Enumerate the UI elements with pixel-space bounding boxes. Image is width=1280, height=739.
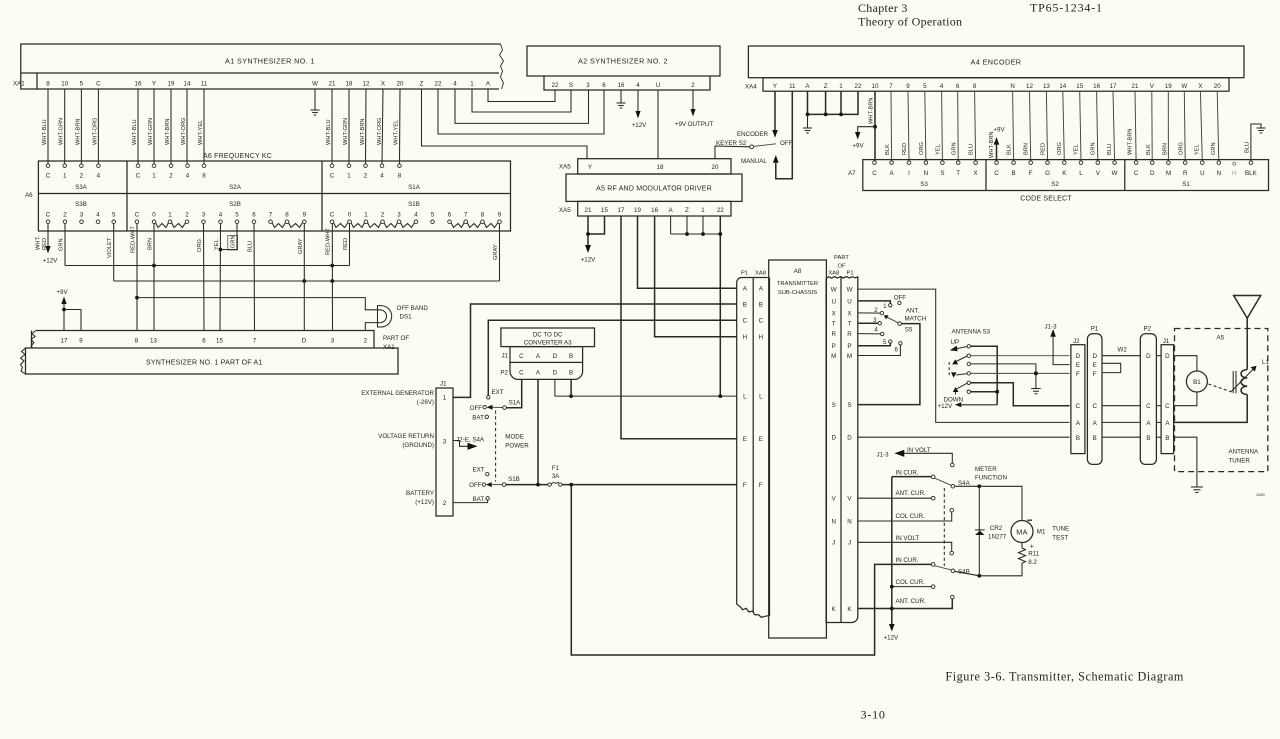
svg-text:19: 19 [168, 80, 175, 87]
wire P1-D to P2-D [1102, 355, 1140, 357]
switch S1A contacts [330, 164, 401, 168]
svg-text:ANTENNA: ANTENNA [1229, 449, 1259, 456]
svg-text:PART OF: PART OF [383, 335, 409, 342]
svg-text:1: 1 [63, 173, 67, 180]
svg-text:P2: P2 [500, 370, 508, 377]
svg-text:ENCODER: ENCODER [737, 131, 768, 138]
svg-text:COL CUR.: COL CUR. [896, 513, 926, 520]
svg-text:TUNE: TUNE [1052, 526, 1069, 533]
svg-text:BLU: BLU [1244, 142, 1250, 153]
svg-text:D: D [1146, 353, 1151, 360]
A2 pin4 +12V [637, 90, 639, 111]
svg-text:BLU: BLU [1107, 144, 1113, 155]
svg-text:D: D [1092, 353, 1097, 360]
A2 pin16 ground [617, 90, 626, 108]
wire S3 contact2 to J2-D [971, 355, 1070, 357]
svg-text:C: C [330, 212, 335, 219]
svg-text:W2: W2 [1118, 347, 1128, 354]
svg-text:GRN: GRN [231, 235, 237, 248]
svg-text:C: C [1146, 403, 1151, 410]
svg-text:E: E [1076, 362, 1080, 369]
svg-text:(+12V): (+12V) [415, 499, 434, 506]
svg-text:WHT-GRN: WHT-GRN [148, 118, 154, 145]
svg-text:K: K [847, 606, 852, 613]
svg-text:WHT-GRN: WHT-GRN [59, 118, 65, 145]
wire S3B-C WHT-RED to +12V [47, 224, 49, 247]
svg-text:GRAY: GRAY [298, 238, 304, 254]
svg-text:Z: Z [685, 207, 689, 214]
A1 synthesizer no.1 box [21, 44, 504, 89]
svg-text:OFF: OFF [470, 405, 483, 412]
svg-text:CR2: CR2 [990, 525, 1003, 532]
svg-text:S: S [847, 402, 851, 409]
antenna symbol [1234, 296, 1261, 370]
svg-text:D: D [1076, 353, 1081, 360]
svg-text:GRN: GRN [1091, 142, 1097, 155]
svg-text:S2B: S2B [229, 201, 241, 208]
svg-text:2: 2 [364, 173, 368, 180]
svg-text:F: F [759, 482, 763, 489]
A7 S3/S2 divider [985, 160, 987, 191]
svg-text:V: V [847, 496, 852, 503]
svg-text:18: 18 [657, 164, 664, 171]
A6 frequency KC box [38, 161, 510, 231]
svg-text:14: 14 [1059, 83, 1066, 90]
XA1 pin labels [46, 80, 491, 87]
svg-text:0: 0 [152, 212, 156, 219]
svg-text:C: C [330, 173, 335, 180]
svg-text:2: 2 [169, 173, 173, 180]
svg-text:B: B [759, 301, 763, 308]
svg-text:XA8: XA8 [828, 271, 839, 277]
svg-text:7: 7 [464, 212, 468, 219]
svg-text:ORG: ORG [197, 239, 203, 252]
svg-text:SYNTHESIZER NO. 1 PART OF A1: SYNTHESIZER NO. 1 PART OF A1 [146, 360, 262, 367]
svg-text:EXTERNAL GENERATOR: EXTERNAL GENERATOR [361, 390, 434, 397]
svg-text:22: 22 [717, 207, 724, 214]
svg-text:1: 1 [883, 303, 887, 310]
svg-text:3: 3 [80, 212, 84, 219]
svg-text:B: B [569, 353, 573, 360]
A5 antenna tuner dashed enclosure [1175, 329, 1268, 472]
svg-text:16: 16 [651, 207, 658, 214]
svg-text:J1: J1 [440, 381, 447, 388]
svg-text:WHT-YEL: WHT-YEL [198, 120, 204, 145]
svg-text:OFF BAND: OFF BAND [397, 305, 429, 312]
svg-text:0: 0 [348, 212, 352, 219]
svg-text:B: B [743, 301, 747, 308]
svg-text:WHT-ORG: WHT-ORG [92, 118, 98, 145]
svg-text:B: B [1012, 170, 1016, 177]
svg-text:WHT-ORG: WHT-ORG [377, 118, 383, 145]
svg-text:IN CUR.: IN CUR. [896, 557, 919, 564]
svg-text:RED: RED [902, 143, 908, 155]
svg-text:MODE: MODE [505, 434, 524, 441]
svg-text:+12V: +12V [43, 258, 58, 265]
svg-text:3A: 3A [552, 473, 560, 480]
svg-text:ORG: ORG [1178, 142, 1184, 155]
svg-text:D: D [553, 353, 558, 360]
svg-text:KEYER S2: KEYER S2 [716, 140, 747, 147]
wire S3 contact4 to J2-F [971, 372, 1070, 374]
svg-text:RED: RED [1040, 143, 1046, 155]
svg-text:7: 7 [889, 83, 893, 90]
svg-text:D: D [1150, 170, 1155, 177]
svg-text:F: F [1029, 170, 1033, 177]
svg-text:XA4: XA4 [745, 84, 757, 91]
svg-text:+9V: +9V [56, 289, 68, 296]
connector J1 (tuner) [1161, 345, 1174, 454]
svg-text:TUNER: TUNER [1229, 458, 1251, 465]
svg-text:P1: P1 [741, 271, 748, 277]
svg-text:WHT-BRN: WHT-BRN [165, 118, 171, 145]
wire XA5-19 to A8 pin A [638, 216, 737, 288]
svg-text:13: 13 [150, 338, 157, 345]
link wire A1-4 to A2-3 [455, 89, 589, 123]
wire A8-R to S5 contact 4 [858, 333, 880, 335]
svg-text:12: 12 [363, 80, 370, 87]
S2B jumper links 7-8-9 [272, 223, 303, 228]
svg-text:L: L [743, 394, 747, 401]
svg-text:B: B [1076, 435, 1080, 442]
svg-text:VIOLET: VIOLET [107, 237, 113, 258]
wire P2-A down to fuse line [537, 379, 539, 484]
svg-text:L1: L1 [1262, 359, 1269, 366]
svg-text:F: F [1076, 371, 1080, 378]
svg-text:U: U [656, 82, 660, 89]
svg-text:8.2: 8.2 [1028, 559, 1037, 566]
svg-text:+9V OUTPUT: +9V OUTPUT [675, 121, 714, 128]
svg-text:1109: 1109 [1256, 492, 1265, 497]
wire P1-A to P2-A [1102, 421, 1140, 423]
diode CR2 1N277 [978, 486, 980, 576]
svg-text:2: 2 [381, 212, 385, 219]
svg-text:T: T [956, 170, 960, 177]
wire L1 to J1-A [1174, 395, 1248, 423]
svg-text:H: H [743, 334, 747, 341]
svg-text:RED-WHT: RED-WHT [326, 228, 332, 255]
svg-text:1: 1 [364, 212, 368, 219]
svg-text:S1: S1 [1182, 181, 1190, 188]
svg-text:ANT. CUR.: ANT. CUR. [896, 598, 927, 605]
svg-text:D: D [553, 370, 558, 377]
wire color labels group2 [132, 118, 204, 145]
svg-text:B1: B1 [1193, 379, 1201, 386]
svg-text:4: 4 [414, 212, 418, 219]
svg-text:P2: P2 [1144, 326, 1152, 333]
wire A8-D to J2-B [858, 436, 1069, 438]
svg-text:DC TO DC: DC TO DC [533, 331, 563, 338]
svg-text:WHT-ORG: WHT-ORG [181, 118, 187, 145]
svg-text:19: 19 [634, 207, 641, 214]
svg-text:WHT-BRN: WHT-BRN [1128, 128, 1134, 155]
svg-text:J2-E, S4A: J2-E, S4A [456, 437, 485, 444]
svg-text:M1: M1 [1037, 529, 1046, 536]
S1B jumper links 6-7-8-9 [451, 223, 498, 228]
lamp DS1 off band [365, 306, 391, 331]
svg-text:GRN: GRN [1211, 142, 1217, 155]
svg-text:2: 2 [364, 338, 368, 345]
wire S1B-9 GRAY to bus2 [499, 224, 501, 282]
svg-text:A: A [669, 207, 674, 214]
svg-text:RED: RED [343, 238, 349, 250]
svg-text:S2: S2 [1051, 181, 1059, 188]
svg-text:5: 5 [235, 212, 239, 219]
svg-text:4: 4 [636, 82, 640, 89]
svg-text:8: 8 [135, 338, 139, 345]
svg-text:BRN: BRN [1162, 143, 1168, 155]
A7 code select box [863, 160, 1269, 191]
svg-text:20: 20 [712, 164, 719, 171]
svg-text:3: 3 [397, 212, 401, 219]
svg-text:A: A [536, 353, 541, 360]
svg-text:SUB-CHASSIS: SUB-CHASSIS [778, 290, 817, 296]
net XA4 A,Z,1,22 [808, 91, 859, 114]
wire P1-B to P2-B [1102, 436, 1140, 438]
wire XA4-10 WHT-BRN to A7 S3-C with +9V branch [874, 91, 876, 161]
svg-text:(-26V): (-26V) [417, 399, 434, 406]
svg-text:WHT-BLU: WHT-BLU [42, 119, 48, 145]
svg-text:B: B [1165, 435, 1169, 442]
svg-text:4: 4 [380, 173, 384, 180]
wire A8-U to S5 contact 1 [858, 301, 890, 304]
wire J1-B to tuner ground [1174, 437, 1197, 487]
inductor L1 [1241, 370, 1247, 395]
link wire A1-22 to A2-6 [438, 89, 604, 134]
svg-text:BATTERY: BATTERY [406, 490, 434, 497]
svg-text:P1: P1 [1091, 326, 1099, 333]
svg-text:2: 2 [185, 212, 189, 219]
wire J1-2 to S1B BAT [453, 500, 488, 503]
svg-text:CODE SELECT: CODE SELECT [1020, 196, 1072, 203]
svg-text:TRANSMITTER: TRANSMITTER [777, 281, 818, 287]
svg-text:4: 4 [186, 173, 190, 180]
svg-text:A6: A6 [25, 192, 33, 199]
svg-text:J2: J2 [1073, 338, 1080, 345]
svg-text:15: 15 [216, 338, 223, 345]
wire S1A wiper to DC-DC P2-C [506, 379, 521, 407]
svg-text:MATCH: MATCH [905, 316, 927, 323]
svg-text:FUNCTION: FUNCTION [975, 475, 1007, 482]
svg-text:Y: Y [588, 164, 592, 171]
svg-text:1: 1 [839, 83, 843, 90]
A3 J1 pin row [510, 347, 583, 363]
svg-text:F1: F1 [552, 465, 560, 472]
svg-text:BLK: BLK [885, 144, 891, 155]
svg-text:21: 21 [585, 207, 592, 214]
wire A1-Z to XA5-Y [422, 89, 588, 159]
A6 section dividers [126, 161, 128, 231]
S3 arm down section [951, 372, 957, 377]
svg-text:OFF: OFF [780, 140, 793, 147]
svg-text:3: 3 [331, 338, 335, 345]
svg-text:S: S [940, 170, 944, 177]
svg-text:A: A [1165, 420, 1170, 427]
svg-text:19: 19 [1165, 83, 1172, 90]
svg-text:17: 17 [1110, 83, 1117, 90]
svg-text:6: 6 [894, 347, 898, 354]
svg-text:W: W [1181, 83, 1187, 90]
svg-text:A: A [890, 170, 895, 177]
svg-text:MANUAL: MANUAL [741, 158, 767, 165]
svg-text:XA5: XA5 [559, 207, 571, 214]
svg-text:8: 8 [398, 173, 402, 180]
A2 synthesizer no.2 box [527, 46, 720, 76]
svg-text:16: 16 [1093, 83, 1100, 90]
wires XA1 group3 (21,18,12,X,20) down to A6 S1A [332, 89, 400, 164]
svg-text:+12V: +12V [938, 403, 953, 410]
svg-text:1N277: 1N277 [988, 534, 1007, 541]
svg-text:TEST: TEST [1052, 535, 1068, 542]
svg-text:J1-3: J1-3 [1045, 324, 1058, 331]
wire XA5-16 to A8 pin H [655, 216, 737, 337]
svg-text:G: G [1045, 170, 1050, 177]
wire S3 contact3 to ground junction [971, 364, 1036, 374]
svg-text:YEL: YEL [1194, 144, 1200, 155]
S1B jumper links C-0-1-2-3-4 [334, 223, 415, 228]
svg-text:S3B: S3B [75, 201, 87, 208]
svg-text:8: 8 [973, 83, 977, 90]
svg-text:7: 7 [269, 212, 273, 219]
wires XA4 to A7 code select (19 colored wires) [891, 91, 1219, 161]
A3 P2 pin row [510, 362, 583, 379]
svg-text:4: 4 [874, 327, 878, 334]
svg-text:+12V: +12V [581, 257, 596, 264]
svg-text:N: N [1010, 83, 1014, 90]
svg-text:WHT-GRN: WHT-GRN [343, 118, 349, 145]
svg-text:MA: MA [1016, 528, 1028, 537]
svg-text:R: R [831, 331, 836, 338]
svg-text:A6 FREQUENCY KC: A6 FREQUENCY KC [203, 153, 272, 160]
ground at XA4 A,Z,1,22 net [803, 114, 812, 133]
wire S2B-C RED-WHT to XA1 pin 8 [136, 224, 138, 331]
svg-text:6: 6 [252, 212, 256, 219]
wire S1B-C RED-WHT to XA1 pin 3 [331, 224, 333, 331]
svg-text:9: 9 [79, 338, 83, 345]
svg-text:15: 15 [1076, 83, 1083, 90]
svg-text:F: F [743, 482, 747, 489]
svg-text:D: D [847, 434, 852, 441]
svg-text:S3: S3 [920, 181, 928, 188]
svg-text:8: 8 [285, 212, 289, 219]
wire P2-D to A8 pin L [555, 379, 737, 396]
svg-text:ANT.: ANT. [906, 308, 920, 315]
svg-text:S1B: S1B [508, 476, 520, 483]
A4 encoder box [748, 46, 1244, 78]
S5 wiper arm [898, 322, 902, 326]
svg-text:R11: R11 [1028, 551, 1039, 558]
wire color labels group1 [42, 118, 98, 145]
switch S2A contacts [136, 164, 206, 168]
A2 pin2 +9V OUTPUT [692, 90, 694, 109]
wire B1 to J1-C [1174, 392, 1197, 406]
svg-text:ANT. CUR.: ANT. CUR. [896, 490, 927, 497]
svg-text:X: X [1198, 83, 1202, 90]
svg-text:21: 21 [1132, 83, 1139, 90]
wire XA4-Y to encoder position (arrow down) [774, 91, 776, 130]
svg-text:Y: Y [773, 83, 777, 90]
wire S3 contact1+6 common [971, 346, 998, 405]
switch S4B [935, 566, 951, 570]
wire S2B-9 GRAY to XA1 pin D [303, 224, 305, 331]
bus3 to DS1 [137, 298, 378, 310]
svg-text:D: D [302, 338, 307, 345]
svg-text:I: I [908, 170, 910, 177]
wire color labels XA4-A7 [885, 128, 1217, 155]
svg-text:4: 4 [97, 173, 101, 180]
svg-text:ANTENNA S3: ANTENNA S3 [952, 329, 991, 336]
svg-text:B: B [1146, 435, 1150, 442]
A8 transmitter sub-chassis box [769, 260, 827, 638]
svg-text:A2 SYNTHESIZER NO. 2: A2 SYNTHESIZER NO. 2 [578, 57, 668, 66]
svg-text:P: P [847, 343, 851, 350]
svg-text:COL CUR.: COL CUR. [896, 579, 926, 586]
svg-text:A: A [536, 370, 541, 377]
svg-text:B: B [1093, 435, 1097, 442]
bus1 common line [65, 265, 350, 267]
svg-text:A: A [1076, 420, 1081, 427]
svg-text:C: C [1092, 403, 1097, 410]
svg-text:Z: Z [420, 80, 424, 87]
pin W ground [311, 89, 320, 115]
svg-text:1: 1 [470, 80, 474, 87]
svg-text:POWER: POWER [505, 443, 529, 450]
A7 pin contacts [873, 161, 1253, 165]
A2 pin row [544, 76, 710, 90]
S2B jumper links 0-1-2 [156, 223, 186, 228]
svg-text:WHT-BLU: WHT-BLU [132, 119, 138, 145]
svg-text:C: C [135, 212, 140, 219]
svg-text:11: 11 [789, 83, 796, 90]
svg-text:C: C [759, 318, 764, 325]
XA5 top pin row [578, 159, 731, 174]
switch S3A contacts [46, 164, 100, 168]
svg-text:F: F [1093, 371, 1097, 378]
link wire A1-A to A2-22 [488, 89, 555, 102]
wire A8-P to S5 contact 5 [858, 343, 890, 346]
svg-text:14: 14 [184, 80, 191, 87]
svg-text:U: U [831, 298, 835, 305]
svg-text:YEL: YEL [1074, 144, 1080, 155]
motor B1 [1186, 371, 1207, 392]
+9V feed into A7 S2-C [996, 144, 998, 161]
svg-text:YEL: YEL [936, 144, 942, 155]
svg-text:A4 ENCODER: A4 ENCODER [971, 58, 1022, 67]
svg-text:9: 9 [303, 212, 307, 219]
svg-text:C: C [1165, 403, 1170, 410]
svg-text:D: D [1165, 353, 1170, 360]
svg-text:H: H [759, 334, 763, 341]
svg-text:R: R [1183, 170, 1188, 177]
svg-text:P: P [832, 343, 836, 350]
svg-text:WHT-YEL: WHT-YEL [394, 120, 400, 145]
svg-text:A: A [486, 80, 491, 87]
svg-text:WHT-: WHT- [36, 235, 42, 250]
svg-text:9: 9 [906, 83, 910, 90]
svg-text:A7: A7 [848, 170, 856, 177]
S3 gang dashes [948, 362, 950, 377]
XA5 bottom pin row [578, 201, 731, 216]
svg-text:11: 11 [201, 80, 208, 87]
wire A8-X to S5 contact 2 [858, 312, 880, 314]
wire S5 common to A8-S [858, 324, 920, 405]
svg-text:S1B: S1B [408, 201, 420, 208]
svg-text:6: 6 [956, 83, 960, 90]
svg-text:BLK: BLK [1245, 170, 1258, 177]
svg-text:A: A [1146, 420, 1151, 427]
switch S4A [935, 478, 951, 485]
net XA5 A,Z,1,22 bus [671, 216, 721, 234]
